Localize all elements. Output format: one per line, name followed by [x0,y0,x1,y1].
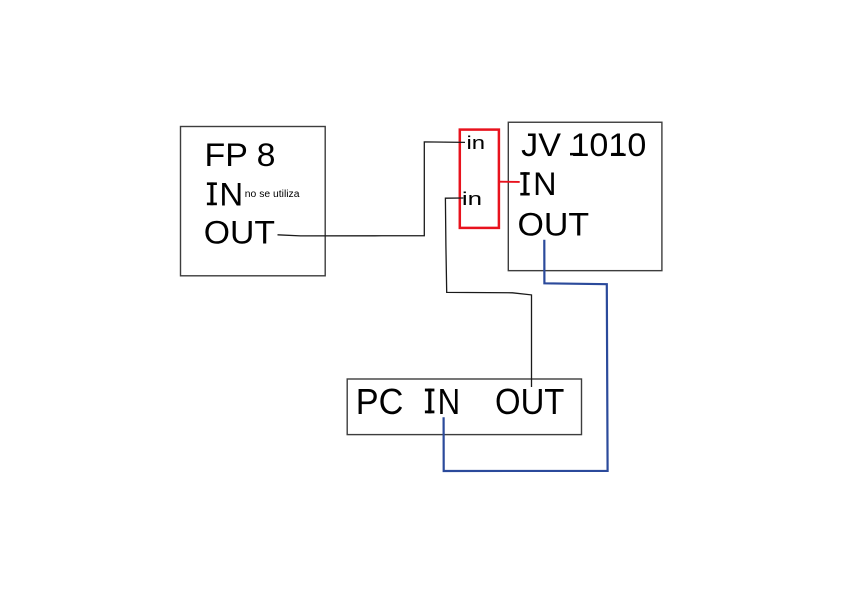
svg-text:JV 1010: JV 1010 [521,126,646,163]
label PC IN: glyph I with crossbars [425,389,435,414]
device box PC [347,379,581,435]
label JV 1010 digit-1 foot serifs [570,153,583,156]
wire: interface pin in(bottom) to PC OUT [445,198,531,387]
svg-text:N: N [438,381,461,422]
device box FP 8 [181,127,326,276]
wire: JV 1010 OUT to PC IN (blue) [444,240,608,471]
label JV IN: glyph I with crossbars [520,172,529,195]
svg-text:N: N [219,177,243,213]
svg-text:no se utiliza: no se utiliza [245,189,300,200]
svg-text:OUT: OUT [518,206,590,243]
svg-text:OUT: OUT [204,214,275,250]
svg-text:in: in [467,132,486,153]
svg-text:FP 8: FP 8 [205,137,276,173]
svg-text:N: N [533,165,556,202]
interface box (red) [460,130,499,228]
wire: FP8 OUT to interface pin in(top) [278,142,466,236]
svg-text:OUT: OUT [495,381,564,422]
svg-text:PC: PC [356,381,404,422]
device box JV 1010 [508,122,662,270]
label FP8 IN: glyph I with crossbars [207,182,217,205]
wire: interface box to JV 1010 IN (red) [499,181,520,183]
svg-text:in: in [462,188,482,209]
